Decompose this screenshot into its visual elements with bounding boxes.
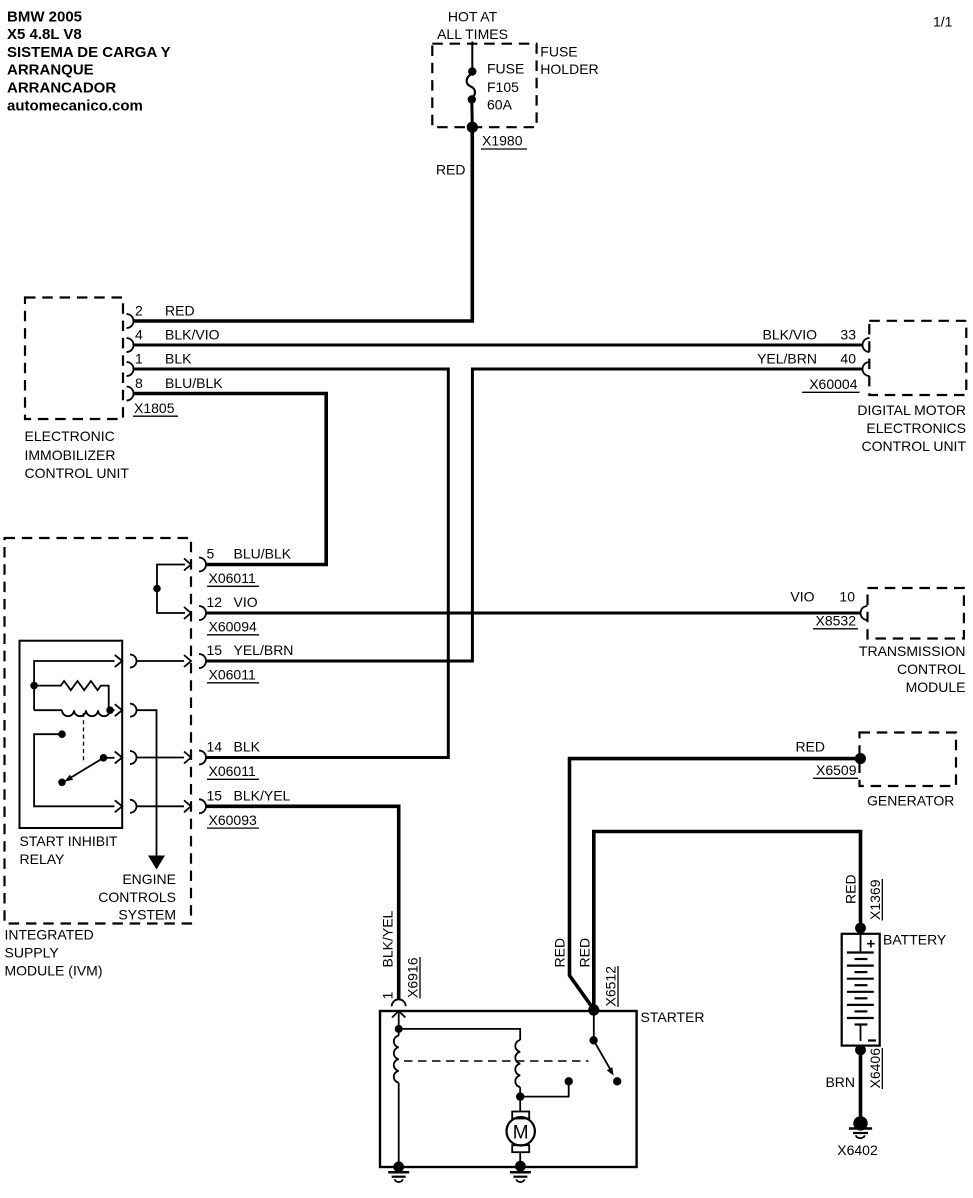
svg-text:60A: 60A xyxy=(487,97,513,113)
wire YEL/BRN DME pin 40 to IVM pin 15 xyxy=(207,369,863,661)
svg-text:X60004: X60004 xyxy=(809,376,857,392)
junction dot solenoid feed xyxy=(395,1025,403,1033)
svg-text:MODULE: MODULE xyxy=(906,679,966,695)
integrated supply module IVM box xyxy=(5,538,192,924)
IVM pin 15 BLK/YEL connector X60093 xyxy=(184,787,291,828)
label X1369 xyxy=(867,879,883,921)
IVM pin 14 BLK connector X06011 xyxy=(184,739,261,780)
wire coil junction to switch contact xyxy=(520,1085,569,1097)
svg-text:M: M xyxy=(513,1122,529,1143)
fuse F105 60A xyxy=(467,67,477,127)
svg-text:X1805: X1805 xyxy=(134,400,175,416)
svg-text:X6916: X6916 xyxy=(405,957,421,998)
label X6512 xyxy=(603,966,619,1007)
svg-text:X06011: X06011 xyxy=(209,570,256,586)
svg-text:CONTROL: CONTROL xyxy=(897,661,966,677)
svg-text:RED: RED xyxy=(843,874,859,904)
svg-text:MODULE (IVM): MODULE (IVM) xyxy=(5,963,103,979)
wire RED starter junction to generator X6509 xyxy=(570,759,858,1010)
svg-text:X1369: X1369 xyxy=(867,879,883,920)
start inhibit relay box xyxy=(20,641,123,828)
svg-text:CONTROL UNIT: CONTROL UNIT xyxy=(862,438,967,454)
label FUSE HOLDER xyxy=(540,44,598,77)
label FUSE F105 60A xyxy=(487,61,524,113)
svg-text:15: 15 xyxy=(207,787,223,803)
starter hold-in coil xyxy=(515,1040,520,1097)
title block xyxy=(7,8,171,114)
svg-text:1: 1 xyxy=(380,992,396,1000)
ground (starter motor) xyxy=(510,1161,531,1182)
connector X6916 (starter pin 1) xyxy=(392,999,406,1017)
svg-text:X06011: X06011 xyxy=(209,763,256,779)
svg-text:ARRANCADOR: ARRANCADOR xyxy=(7,80,116,97)
splice X6509 xyxy=(855,753,866,764)
svg-text:VIO: VIO xyxy=(234,594,258,610)
svg-text:5: 5 xyxy=(207,546,215,562)
svg-text:TRANSMISSION: TRANSMISSION xyxy=(859,643,966,659)
svg-text:X8532: X8532 xyxy=(816,613,857,629)
svg-text:1: 1 xyxy=(135,351,143,367)
generator box xyxy=(860,733,957,787)
svg-text:14: 14 xyxy=(207,739,223,755)
label X6916 xyxy=(405,957,421,999)
mechanical link (dashed) solenoid to switch xyxy=(404,1060,589,1062)
digital motor electronics control unit box xyxy=(869,321,966,395)
starter box xyxy=(380,1011,637,1167)
svg-text:INTEGRATED: INTEGRATED xyxy=(5,927,94,943)
wire feed into fuse holder xyxy=(471,42,473,72)
starter motor M xyxy=(507,1112,535,1165)
wire BLK immobilizer pin 1 to IVM pin 14 xyxy=(133,369,448,758)
svg-text:X60093: X60093 xyxy=(209,812,257,828)
junction dot resistor tap xyxy=(30,682,38,690)
svg-text:BLK: BLK xyxy=(165,351,192,367)
starter switch arm xyxy=(589,1036,621,1085)
starter pull-in coil xyxy=(394,1029,399,1165)
svg-text:BLK/YEL: BLK/YEL xyxy=(234,787,291,803)
relay coil pin xyxy=(115,704,137,717)
svg-text:RED: RED xyxy=(165,303,195,319)
splice X6512 xyxy=(588,1004,599,1015)
mechanical link (dashed) coil to switch xyxy=(83,713,85,763)
label ELECTRONIC IMMOBILIZER CONTROL UNIT xyxy=(25,428,130,481)
svg-text:X6406: X6406 xyxy=(867,1048,883,1089)
switch contact dot (motor side) xyxy=(565,1077,573,1085)
fuse holder box xyxy=(432,44,536,128)
transmission control module box xyxy=(868,588,964,639)
label START INHIBIT RELAY xyxy=(20,833,118,867)
svg-text:STARTER: STARTER xyxy=(641,1009,705,1025)
svg-text:CONTROLS: CONTROLS xyxy=(98,889,176,905)
svg-text:BLU/BLK: BLU/BLK xyxy=(165,375,223,391)
svg-text:SISTEMA DE CARGA Y: SISTEMA DE CARGA Y xyxy=(7,44,171,61)
pin 10 VIO of X8532 xyxy=(790,589,867,621)
svg-text:+: + xyxy=(867,936,876,953)
svg-text:RED: RED xyxy=(795,739,825,755)
svg-text:X06011: X06011 xyxy=(209,667,256,683)
svg-text:X6402: X6402 xyxy=(837,1142,878,1158)
wire relay switch pin to IVM pin 14 xyxy=(137,757,185,759)
pin 1 BLK of X1805 xyxy=(127,351,193,377)
svg-text:8: 8 xyxy=(135,375,143,391)
svg-text:40: 40 xyxy=(840,351,856,367)
svg-text:RED: RED xyxy=(552,938,568,968)
wire coil pin to engine controls arrow xyxy=(137,710,157,855)
svg-text:RELAY: RELAY xyxy=(20,851,66,867)
wire BLK/VIO immobilizer pin 4 to DME pin 33 xyxy=(133,344,863,347)
wire solenoid feed to hold-in coil xyxy=(399,1029,521,1040)
svg-text:ARRANQUE: ARRANQUE xyxy=(7,62,94,79)
IVM pin 15 YEL/BRN connector X06011 xyxy=(184,642,293,683)
relay coil (inductor) xyxy=(34,706,114,716)
label X1980 xyxy=(481,133,527,150)
label X60004 xyxy=(802,376,860,392)
junction dot pins 5-12 xyxy=(153,585,161,593)
svg-text:15: 15 xyxy=(207,642,223,658)
IVM pin 5 BLU/BLK connector X06011 xyxy=(184,546,292,587)
svg-text:SYSTEM: SYSTEM xyxy=(118,907,176,923)
wire BLU/BLK immobilizer pin 8 to IVM pin 5 xyxy=(133,394,326,565)
svg-text:YEL/BRN: YEL/BRN xyxy=(757,351,817,367)
svg-text:BLK/VIO: BLK/VIO xyxy=(165,327,220,343)
svg-text:DIGITAL MOTOR: DIGITAL MOTOR xyxy=(857,402,966,418)
relay pin (bottom) to BLK/YEL xyxy=(115,800,137,813)
battery xyxy=(842,934,880,1046)
svg-text:START INHIBIT: START INHIBIT xyxy=(20,833,118,849)
svg-text:X6509: X6509 xyxy=(816,762,857,778)
svg-text:BRN: BRN xyxy=(825,1074,855,1090)
svg-text:ELECTRONIC: ELECTRONIC xyxy=(25,428,115,444)
pin 4 BLK/VIO of X1805 xyxy=(127,327,220,353)
svg-text:YEL/BRN: YEL/BRN xyxy=(234,642,294,658)
svg-text:X5 4.8L V8: X5 4.8L V8 xyxy=(7,26,82,43)
label X8532 xyxy=(813,613,858,629)
wire link IVM pin5 to pin12 xyxy=(157,565,185,614)
wire relay top pin internal xyxy=(34,661,114,710)
svg-text:X60094: X60094 xyxy=(209,619,257,635)
svg-text:2: 2 xyxy=(135,303,143,319)
relay switch arm xyxy=(58,754,114,786)
svg-text:BLU/BLK: BLU/BLK xyxy=(234,546,292,562)
resistor (relay economy resistor) xyxy=(34,681,109,710)
svg-text:automecanico.com: automecanico.com xyxy=(7,97,143,114)
label DIGITAL MOTOR ELECTRONICS CONTROL UNIT xyxy=(857,402,966,454)
junction dot hold-in coil to motor xyxy=(516,1092,524,1100)
label X6406 xyxy=(867,1048,883,1089)
svg-text:F105: F105 xyxy=(487,79,519,95)
label ENGINE CONTROLS SYSTEM xyxy=(98,871,176,923)
svg-text:12: 12 xyxy=(207,594,223,610)
IVM pin 12 VIO connector X60094 xyxy=(184,594,259,635)
wire relay bottom pin to IVM pin 15 BLK/YEL xyxy=(137,805,185,807)
svg-text:RED: RED xyxy=(436,162,466,178)
svg-text:ELECTRONICS: ELECTRONICS xyxy=(866,420,966,436)
label X1805 xyxy=(133,400,178,416)
svg-text:CONTROL UNIT: CONTROL UNIT xyxy=(25,465,130,481)
svg-text:4: 4 xyxy=(135,327,143,343)
label TRANSMISSION CONTROL MODULE xyxy=(859,643,966,695)
ground (solenoid coils) xyxy=(388,1162,409,1183)
engine controls system arrow xyxy=(148,856,165,870)
svg-text:33: 33 xyxy=(840,327,856,343)
svg-text:X1980: X1980 xyxy=(482,133,523,149)
svg-text:10: 10 xyxy=(839,589,855,605)
wire relay top pin to IVM pin 15 xyxy=(137,660,185,662)
relay pin to BLK (switch output) xyxy=(115,751,137,764)
wire fixed contact to bottom pin xyxy=(34,734,114,806)
relay pin (top) to YEL/BRN xyxy=(115,655,137,668)
svg-text:IMMOBILIZER: IMMOBILIZER xyxy=(25,447,116,463)
svg-text:BLK/YEL: BLK/YEL xyxy=(380,910,396,967)
svg-text:HOLDER: HOLDER xyxy=(540,61,598,77)
wire BLK/YEL IVM X60093 to starter pin 1 xyxy=(207,806,399,1000)
ground X6402 xyxy=(849,1116,872,1138)
wire starter pin 1 to pull-in coil xyxy=(398,1011,400,1029)
node HOT AT ALL TIMES xyxy=(437,8,508,42)
splice X1369 (battery positive terminal) xyxy=(855,923,866,934)
wire to starter motor xyxy=(519,1097,521,1112)
svg-text:BLK: BLK xyxy=(234,739,261,755)
label X6509 xyxy=(813,762,858,778)
pin 33 BLK/VIO of X60004 xyxy=(763,327,870,353)
label INTEGRATED SUPPLY MODULE (IVM) xyxy=(5,927,103,979)
svg-text:FUSE: FUSE xyxy=(487,61,524,77)
svg-text:VIO: VIO xyxy=(790,589,814,605)
pin 8 BLU/BLK of X1805 xyxy=(127,375,224,401)
pin 2 RED of X1805 xyxy=(127,303,195,329)
svg-text:RED: RED xyxy=(576,938,592,968)
pin 40 YEL/BRN of X60004 xyxy=(757,351,869,377)
svg-text:ENGINE: ENGINE xyxy=(122,871,176,887)
svg-text:1/1: 1/1 xyxy=(933,14,953,30)
splice X1980 xyxy=(467,122,478,133)
wire VIO IVM pin 12 to TCM pin 10 xyxy=(207,612,861,615)
svg-text:X6512: X6512 xyxy=(603,966,619,1007)
wire RED fuse to immobilizer pin 2 xyxy=(133,127,472,321)
svg-text:FUSE: FUSE xyxy=(540,44,577,60)
svg-text:ALL TIMES: ALL TIMES xyxy=(437,26,508,42)
svg-text:HOT AT: HOT AT xyxy=(448,8,498,24)
svg-text:BATTERY: BATTERY xyxy=(883,932,947,948)
svg-text:GENERATOR: GENERATOR xyxy=(867,793,954,809)
wire RED starter junction to battery positive xyxy=(594,832,861,1011)
svg-text:SUPPLY: SUPPLY xyxy=(5,945,60,961)
splice X6406 (battery negative terminal) xyxy=(855,1045,866,1056)
relay switch fixed contact xyxy=(58,730,66,738)
svg-text:BMW 2005: BMW 2005 xyxy=(7,8,82,25)
wire X6512 to starter switch xyxy=(593,1011,595,1038)
electronic immobilizer control unit box xyxy=(25,298,123,420)
svg-text:BLK/VIO: BLK/VIO xyxy=(763,327,818,343)
wire BRN battery negative to ground X6402 xyxy=(859,1050,863,1117)
